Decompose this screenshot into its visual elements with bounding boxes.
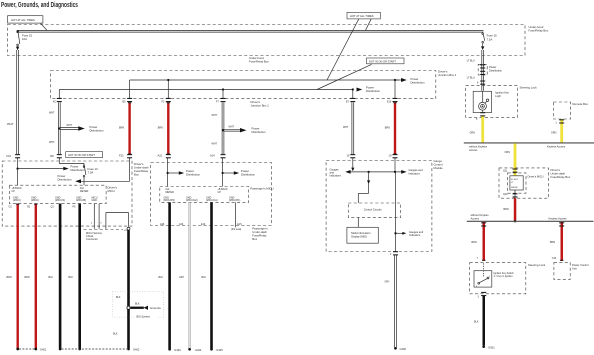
svg-text:R2: R2 xyxy=(27,206,31,209)
svg-text:BLK: BLK xyxy=(202,276,207,279)
svg-text:F22: F22 xyxy=(119,154,124,158)
wire 16 inside xyxy=(352,158,354,168)
svg-text:KC: KC xyxy=(53,101,57,104)
label box HOT IN ON OR START (right) xyxy=(367,58,405,64)
svg-text:(3rd seat): (3rd seat) xyxy=(231,228,241,231)
svg-text:Connector: Connector xyxy=(86,237,98,241)
arrow power distribution from KC wire xyxy=(61,124,104,133)
svg-text:(MICU/P1): (MICU/P1) xyxy=(229,199,240,202)
labels keyless split 2 xyxy=(471,213,568,220)
svg-text:ORN: ORN xyxy=(551,132,557,135)
steering lock box (dashed) xyxy=(466,86,518,118)
label Gauges and Indicators (right) xyxy=(409,168,424,175)
svg-text:BSI System: BSI System xyxy=(137,315,151,319)
svg-text:BLK: BLK xyxy=(159,276,164,279)
label Driver's Junction Box 1 (below) xyxy=(251,100,270,108)
service check jumper loop xyxy=(106,213,129,230)
leader long to junction box internal line xyxy=(327,19,359,80)
svg-text:Distribution: Distribution xyxy=(186,173,200,177)
svg-text:Distribution: Distribution xyxy=(252,130,266,134)
wire ORN merged (yellow) xyxy=(514,143,517,175)
svg-text:GND: GND xyxy=(92,199,98,202)
svg-text:WHT: WHT xyxy=(229,126,235,129)
under-hood fuse/relay box (dashed) xyxy=(8,25,526,56)
wire F10 inside to +B BACK UP xyxy=(17,158,19,185)
svg-text:BRN: BRN xyxy=(550,241,555,244)
svg-text:BRN: BRN xyxy=(119,127,124,130)
micu gnd service wires xyxy=(94,204,99,229)
svg-text:UP: UP xyxy=(218,191,222,194)
ground G404 xyxy=(188,348,191,351)
ground G406 xyxy=(394,347,397,350)
remote box (dashed) xyxy=(554,102,571,119)
svg-text:A23: A23 xyxy=(179,223,184,226)
leader to bus xyxy=(366,19,372,30)
svg-text:Distribution: Distribution xyxy=(489,69,503,73)
driver's under-dash box (keyless area, dashed) xyxy=(499,168,549,198)
svg-text:LT BLU: LT BLU xyxy=(467,77,475,80)
label Passenger's Under-dash Fuse/Relay Box xyxy=(252,227,268,242)
label Under-hood Fuse/Relay Box (center-left) xyxy=(249,56,269,64)
svg-text:BRN: BRN xyxy=(472,241,477,244)
junction F2 drop xyxy=(167,79,169,81)
svg-text:Module: Module xyxy=(434,166,444,170)
svg-text:Q19: Q19 xyxy=(503,193,508,196)
wire BLK to G402 xyxy=(59,204,62,349)
switch symbol xyxy=(476,276,491,288)
wire WHT F7->A14 (double) xyxy=(222,102,224,154)
svg-text:Fuse/Relay Box: Fuse/Relay Box xyxy=(551,175,571,179)
internal bus with arrows xyxy=(345,170,406,174)
wire BRN 2 to G401 (red) xyxy=(35,204,37,349)
svg-text:1 = Key in Ignition: 1 = Key in Ignition xyxy=(494,275,514,278)
svg-text:F10: F10 xyxy=(7,154,12,158)
svg-text:A22: A22 xyxy=(158,154,163,158)
wire BRN F2->A22 (red) xyxy=(167,103,169,155)
svg-text:Grounds: Grounds xyxy=(150,306,161,310)
svg-text:4: 4 xyxy=(390,253,392,256)
key linkage dashed xyxy=(483,263,485,276)
svg-text:Multi-Information: Multi-Information xyxy=(351,231,371,235)
svg-text:BRN: BRN xyxy=(385,127,390,130)
svg-text:A26: A26 xyxy=(160,223,165,226)
svg-text:WHT: WHT xyxy=(49,141,55,144)
label Driver's MICU xyxy=(108,186,118,194)
wire GRY to G404 xyxy=(189,202,191,348)
svg-text:8: 8 xyxy=(477,81,479,84)
wire BLK to G403 xyxy=(168,202,171,348)
wire BLK 2 to G402 xyxy=(78,204,81,349)
svg-text:G2: G2 xyxy=(9,206,13,209)
junction xyxy=(16,167,18,169)
svg-text:G501: G501 xyxy=(488,345,495,349)
wire BRN to steering lock (red) xyxy=(483,222,486,261)
svg-text:WHT: WHT xyxy=(212,114,218,117)
junction to control circuits xyxy=(367,171,369,173)
svg-text:Fuse/Relay Box: Fuse/Relay Box xyxy=(529,29,549,33)
label Fuse 13 7.5A xyxy=(88,167,99,175)
wire BRN E10->19 (red) xyxy=(394,103,396,155)
svg-text:Keyless Access: Keyless Access xyxy=(547,145,566,149)
svg-text:B5: B5 xyxy=(123,101,127,104)
driver's under-dash fuse/relay box (dashed) xyxy=(2,161,132,226)
passenger's MICU (dashed) xyxy=(160,187,249,203)
svg-text:Control Circuits: Control Circuits xyxy=(364,208,382,212)
label Gauges and Indicators (left) xyxy=(330,167,342,177)
wire ORN from remote box (yellow) xyxy=(560,119,563,143)
wire BRN B5->F22 (red) xyxy=(128,103,130,155)
svg-text:Indicators: Indicators xyxy=(409,233,421,237)
wire BLK to G501 xyxy=(483,296,486,346)
svg-text:LT: LT xyxy=(511,182,514,184)
svg-text:WHT: WHT xyxy=(343,126,349,129)
svg-text:Q1: Q1 xyxy=(51,206,55,209)
grounds reference arrow xyxy=(127,306,130,309)
MICU internal labels xyxy=(166,188,229,194)
svg-text:WHT: WHT xyxy=(7,122,14,126)
wire GRY to G406 (double) xyxy=(395,255,397,347)
MICU service check connector (dashed line) xyxy=(84,229,124,231)
fuse 13 xyxy=(83,164,86,186)
wire: internal hot bus (upper, y80) xyxy=(130,80,400,98)
svg-text:BRN: BRN xyxy=(504,208,509,211)
svg-text:(MICU/B): (MICU/B) xyxy=(76,199,86,202)
svg-text:Driver's MICU: Driver's MICU xyxy=(528,174,544,178)
svg-text:16: 16 xyxy=(347,154,350,158)
svg-text:19: 19 xyxy=(389,154,392,158)
svg-text:7.5A: 7.5A xyxy=(88,171,94,175)
MICU internal labels xyxy=(12,187,89,193)
svg-text:Indicators: Indicators xyxy=(409,171,421,175)
svg-text:BLK: BLK xyxy=(69,276,74,279)
svg-text:(MICU): (MICU) xyxy=(13,199,21,202)
svg-text:Junction Box 1: Junction Box 1 xyxy=(438,73,457,77)
label Fuse 15 10A xyxy=(22,33,33,41)
svg-text:BLK: BLK xyxy=(116,296,121,299)
power distribution pass-through (dashed) xyxy=(478,64,487,75)
wire BRN (red) to split line 2 xyxy=(514,198,517,221)
svg-text:E10: E10 xyxy=(387,101,392,104)
svg-text:MICU: MICU xyxy=(108,189,115,193)
steering lock box 2 (dashed) xyxy=(470,263,526,294)
svg-text:(MICU/G1): (MICU/G1) xyxy=(206,199,218,202)
svg-text:ORN: ORN xyxy=(470,132,476,135)
svg-text:BLK: BLK xyxy=(135,302,140,305)
ig key lt box xyxy=(510,176,523,190)
svg-text:WHT: WHT xyxy=(212,143,218,146)
svg-text:Access: Access xyxy=(471,216,480,220)
label box HOT AT ALL TIMES (second) xyxy=(347,12,380,19)
svg-text:Distribution: Distribution xyxy=(90,129,104,133)
svg-text:7.5A: 7.5A xyxy=(487,37,493,41)
svg-text:4: 4 xyxy=(91,222,93,224)
ignition key switch box xyxy=(474,271,492,287)
wire colour labels xyxy=(7,276,74,279)
svg-text:BRN: BRN xyxy=(25,276,30,279)
label box HOT AT ALL TIMES (left) xyxy=(8,16,43,23)
driver's junction box 1 (dashed) xyxy=(51,71,436,99)
wire 19 inside xyxy=(394,158,396,172)
leader to lower internal line xyxy=(317,64,372,89)
svg-text:5: 5 xyxy=(476,118,478,121)
ground G403 xyxy=(168,348,171,351)
svg-text:P6: P6 xyxy=(73,206,77,209)
svg-text:BLK: BLK xyxy=(49,276,54,279)
branch gauges and indicators xyxy=(394,232,396,234)
svg-text:Distribution: Distribution xyxy=(58,178,72,182)
driver's MICU inner (dashed) xyxy=(508,173,526,193)
svg-text:BRN: BRN xyxy=(7,276,12,279)
svg-text:METER: METER xyxy=(80,190,89,193)
wire BLK to G405 xyxy=(210,202,213,348)
svg-text:7: 7 xyxy=(477,257,479,260)
svg-text:Junction Box 1: Junction Box 1 xyxy=(251,104,270,108)
svg-text:Keyless Access: Keyless Access xyxy=(549,216,568,220)
svg-text:E13: E13 xyxy=(201,223,206,226)
svg-text:3: 3 xyxy=(478,296,480,299)
svg-text:Display (MID): Display (MID) xyxy=(351,235,367,239)
wire to MID xyxy=(357,218,359,228)
svg-text:Distribution: Distribution xyxy=(411,80,425,84)
svg-text:Light: Light xyxy=(495,94,501,98)
wire: internal ign bus (lower, y89.5) xyxy=(59,90,353,99)
svg-text:Steering Lock: Steering Lock xyxy=(520,86,538,90)
leader from left HOT AT ALL TIMES to bus xyxy=(41,23,48,30)
arrow power distribution (lower) xyxy=(357,88,363,92)
junction circle on BLK wire xyxy=(127,227,130,230)
label Under-hood Fuse/Relay Box (right) xyxy=(529,25,549,33)
label Ignition Key Switch xyxy=(494,272,515,278)
junction on F7 wire xyxy=(222,129,224,131)
wire WHT KC->IF6 (double) xyxy=(58,102,60,154)
junction on KC wire xyxy=(58,127,60,129)
svg-text:DRIVE: DRIVE xyxy=(511,187,518,189)
branch arrow power distribution xyxy=(168,169,201,177)
label Driver's Under-dash Fuse/Relay Box xyxy=(551,168,571,179)
junction B7 end xyxy=(352,88,354,90)
fuse F15 xyxy=(16,31,20,50)
svg-text:G402: G402 xyxy=(133,348,140,352)
multi-information display box xyxy=(347,227,378,243)
ground G401 xyxy=(16,348,19,351)
control circuits box (dashed) xyxy=(348,203,400,218)
svg-text:Access: Access xyxy=(469,148,478,152)
power control unit (dashed) xyxy=(554,262,570,279)
version split line 1 xyxy=(464,142,594,144)
gauge control module (dashed) xyxy=(326,161,432,252)
wire WHT from fuse15 (double) xyxy=(17,50,19,154)
wire ORN (yellow) to split line xyxy=(481,116,484,143)
svg-text:WHT: WHT xyxy=(49,112,55,115)
passenger's under-dash fuse/relay box (dashed) xyxy=(151,163,272,226)
wire A14 inside xyxy=(222,158,224,187)
svg-text:Distribution: Distribution xyxy=(241,173,255,177)
wire IF6 inside to fuse 13 xyxy=(59,158,84,168)
svg-text:Box: Box xyxy=(252,237,257,241)
svg-text:G401: G401 xyxy=(40,348,47,352)
label Gauge Control Module xyxy=(434,159,444,170)
svg-text:B7: B7 xyxy=(346,101,350,104)
svg-text:HOT AT ALL TIMES: HOT AT ALL TIMES xyxy=(11,18,35,22)
svg-text:HOT AT ALL TIMES: HOT AT ALL TIMES xyxy=(350,14,374,18)
svg-text:METER: METER xyxy=(166,191,175,194)
svg-text:F7: F7 xyxy=(216,101,219,104)
svg-text:Distribution: Distribution xyxy=(366,89,380,93)
svg-text:WHT: WHT xyxy=(67,124,73,127)
svg-text:F2: F2 xyxy=(162,101,165,104)
stub E15 xyxy=(235,202,237,227)
svg-text:HOT IN ON OR START: HOT IN ON OR START xyxy=(68,153,95,157)
svg-text:A14: A14 xyxy=(210,154,215,158)
arrow power distribution (upper) xyxy=(395,79,401,81)
fuse F16 xyxy=(481,32,485,50)
svg-text:Passenger's MICU: Passenger's MICU xyxy=(250,186,273,190)
arrow from power distribution (left) xyxy=(75,179,81,183)
svg-text:(MICU/P2): (MICU/P2) xyxy=(164,199,175,202)
svg-text:Box: Box xyxy=(134,173,139,177)
ground G501 xyxy=(482,345,485,348)
label MICU Service Check Connector xyxy=(86,231,103,241)
svg-text:BLK: BLK xyxy=(113,333,118,336)
svg-text:Power, Grounds, and Diagnostic: Power, Grounds, and Diagnostics xyxy=(1,2,78,9)
svg-text:C34: C34 xyxy=(552,257,557,260)
label Driver's Junction Box 1 (right) xyxy=(438,70,457,78)
svg-text:Distribution: Distribution xyxy=(71,168,85,172)
svg-text:HOT IN ON OR START: HOT IN ON OR START xyxy=(369,59,396,63)
wire F22 inside xyxy=(81,158,130,181)
svg-text:Q11: Q11 xyxy=(503,169,508,172)
svg-text:Unit: Unit xyxy=(572,266,577,270)
wire LT BLU from fuse16 (double) xyxy=(482,50,484,91)
svg-text:BRN: BRN xyxy=(158,127,163,130)
ignition key light box xyxy=(473,91,491,112)
svg-text:G405: G405 xyxy=(216,348,223,352)
wire BRN to power control unit (red) xyxy=(561,222,564,261)
svg-text:(MICU/S): (MICU/S) xyxy=(55,199,65,202)
label Driver's Under-dash Fuse/Relay Box xyxy=(134,162,149,177)
branch arrow power distribution xyxy=(223,169,256,177)
wire colour labels xyxy=(159,276,207,279)
label BSI System xyxy=(136,314,157,319)
svg-text:ORN: ORN xyxy=(505,151,511,154)
svg-text:Fuse/Relay Box: Fuse/Relay Box xyxy=(249,60,269,64)
svg-text:BLK: BLK xyxy=(474,321,479,324)
pins below MICU xyxy=(9,206,77,209)
svg-text:Power Control: Power Control xyxy=(572,263,589,267)
BSI system dotted box xyxy=(113,291,164,317)
svg-text:UP: UP xyxy=(12,190,16,193)
label box HOT IN ON OR START (left) xyxy=(66,152,103,158)
svg-text:Steering Lock: Steering Lock xyxy=(528,263,546,267)
pins xyxy=(160,223,242,231)
junction E10 drop xyxy=(394,79,396,81)
lamp symbol xyxy=(479,91,489,112)
svg-text:1: 1 xyxy=(556,121,558,124)
labels keyless split 1 xyxy=(469,145,566,152)
arrow power distribution from F7 wire xyxy=(224,126,266,135)
svg-text:G403: G403 xyxy=(174,348,181,352)
wire WHT B7->16 (double) xyxy=(352,102,354,154)
svg-text:3: 3 xyxy=(100,222,102,224)
svg-text:Remote Box: Remote Box xyxy=(573,102,589,106)
wire BLK (service gnd) to G402 xyxy=(127,230,130,348)
svg-text:GRY: GRY xyxy=(385,281,391,284)
svg-text:GRY: GRY xyxy=(179,276,185,279)
svg-text:LT BLU: LT BLU xyxy=(467,60,475,63)
svg-text:1: 1 xyxy=(489,276,491,278)
branch arrow power distribution xyxy=(18,164,85,172)
label Fuse 16 7.5A xyxy=(487,34,498,42)
svg-text:IG KEY: IG KEY xyxy=(511,179,519,181)
junction F7 drop xyxy=(222,88,224,90)
svg-text:(MICU): (MICU) xyxy=(31,199,39,202)
version split line 2 xyxy=(467,220,594,222)
svg-text:Power: Power xyxy=(489,65,496,69)
wire: battery bus (double line) xyxy=(17,31,484,33)
svg-text:10A: 10A xyxy=(22,37,27,41)
svg-text:Indicators: Indicators xyxy=(330,174,342,178)
wire A22 inside xyxy=(167,158,169,187)
svg-text:IF6: IF6 xyxy=(50,154,54,158)
svg-text:(MICU/G2): (MICU/G2) xyxy=(186,199,198,202)
ground G405 xyxy=(210,348,213,351)
wire inside to box bottom xyxy=(514,190,516,198)
svg-text:E15: E15 xyxy=(237,223,242,226)
wire BRN to G401 (red) xyxy=(17,204,19,349)
driver's MICU (dashed) xyxy=(9,185,106,203)
right internal wire down xyxy=(395,172,397,252)
svg-text:G406: G406 xyxy=(400,347,407,351)
ground G402 xyxy=(59,348,62,351)
svg-text:G404: G404 xyxy=(195,348,202,352)
